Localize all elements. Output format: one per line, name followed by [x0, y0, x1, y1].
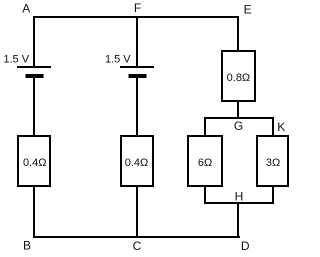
wire: right drop from G rail to resistor 3 ohm (node K) [272, 117, 274, 137]
wire: middle branch from resistor R2 down to node C [136, 186, 138, 238]
resistor R1 (0.4 ohm, left) [18, 136, 50, 186]
svg-text:A: A [22, 2, 30, 16]
wire: middle branch from battery negative plate down to resistor 0.4 ohm [136, 78, 138, 137]
battery B2 (middle, 1.5 V): long positive plate [120, 66, 154, 68]
wire: left branch from battery negative plate down to resistor 0.4 ohm [33, 78, 35, 137]
svg-text:K: K [277, 120, 285, 134]
svg-text:D: D [241, 239, 250, 253]
wire: left drop from G rail to resistor 6 ohm [204, 117, 206, 137]
svg-text:H: H [235, 190, 244, 204]
battery B1 (left, 1.5 V): long positive plate [17, 66, 51, 68]
wire: top bracket of parallel pair (node G rail) [204, 117, 274, 119]
wire: left drop from resistor 6 ohm to node H rail [204, 186, 206, 204]
wire: from node H rail down to node D on bottom bus [237, 203, 239, 238]
svg-text:1.5 V: 1.5 V [3, 54, 29, 66]
svg-text:B: B [23, 239, 31, 253]
wire: right drop from resistor 3 ohm to node H rail [272, 186, 274, 204]
svg-text:1.5 V: 1.5 V [105, 54, 131, 66]
svg-text:0.4Ω: 0.4Ω [23, 157, 47, 169]
wire: middle branch from node F down to battery positive plate [136, 16, 138, 67]
svg-text:G: G [234, 119, 243, 133]
battery B1 (left, 1.5 V): short thick negative plate [26, 74, 44, 78]
wire: bottom bracket of parallel pair (node H rail) [204, 202, 274, 204]
svg-text:F: F [134, 1, 141, 15]
wire: top bus from node A to node E (through F) [33, 16, 239, 18]
resistor R4 (6 ohm) [188, 136, 222, 186]
svg-text:6Ω: 6Ω [198, 157, 212, 169]
wire: left branch from top bus down to battery positive plate [33, 16, 35, 67]
wire: right branch from node E down to resistor 0.8 ohm [237, 16, 239, 52]
svg-text:0.8Ω: 0.8Ω [227, 72, 251, 84]
svg-text:E: E [244, 2, 252, 16]
resistor R2 (0.4 ohm, middle) [121, 136, 153, 186]
battery B2 (middle, 1.5 V): short thick negative plate [129, 74, 147, 78]
svg-text:0.4Ω: 0.4Ω [125, 157, 149, 169]
svg-text:C: C [133, 239, 142, 253]
resistor R3 (0.8 ohm, right top) [222, 51, 255, 101]
resistor R5 (3 ohm) [257, 136, 288, 186]
wire: left branch from resistor R1 down to node B [33, 186, 35, 238]
svg-text:3Ω: 3Ω [266, 157, 280, 169]
wire: from resistor 0.8 ohm down to node G junction [237, 101, 239, 119]
wire: bottom bus from node B to node D (through C) [33, 236, 240, 238]
